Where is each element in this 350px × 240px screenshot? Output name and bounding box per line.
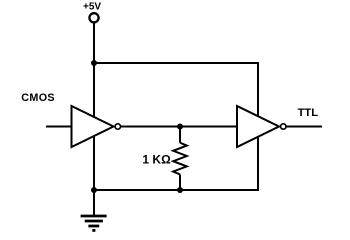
ground xyxy=(81,216,107,230)
op-amp U2 buffer (TTL side) xyxy=(237,106,286,147)
supply terminal circle xyxy=(89,13,98,22)
wire: inverter output to buffer input xyxy=(120,126,237,128)
wire: CMOS input lead xyxy=(46,126,72,128)
svg-text:CMOS: CMOS xyxy=(21,92,55,104)
wire: bottom rail xyxy=(93,189,259,191)
svg-text:TTL: TTL xyxy=(298,107,319,119)
wire: +5V vertical rail xyxy=(93,23,95,216)
wire: right vertical rail xyxy=(257,62,259,191)
wire: top rail xyxy=(93,62,258,64)
svg-text:1 KΩ: 1 KΩ xyxy=(142,153,171,167)
node: junction dot resistor top xyxy=(177,124,183,130)
wire: TTL output lead xyxy=(286,126,322,128)
op-amp U1 inverter (CMOS side) xyxy=(72,106,121,147)
node: junction dot resistor bottom xyxy=(177,187,183,193)
node: junction dot ground rail xyxy=(91,187,97,193)
svg-text:+5V: +5V xyxy=(83,2,101,13)
resistor R1 xyxy=(173,127,187,192)
node: junction dot top rail xyxy=(91,60,97,66)
